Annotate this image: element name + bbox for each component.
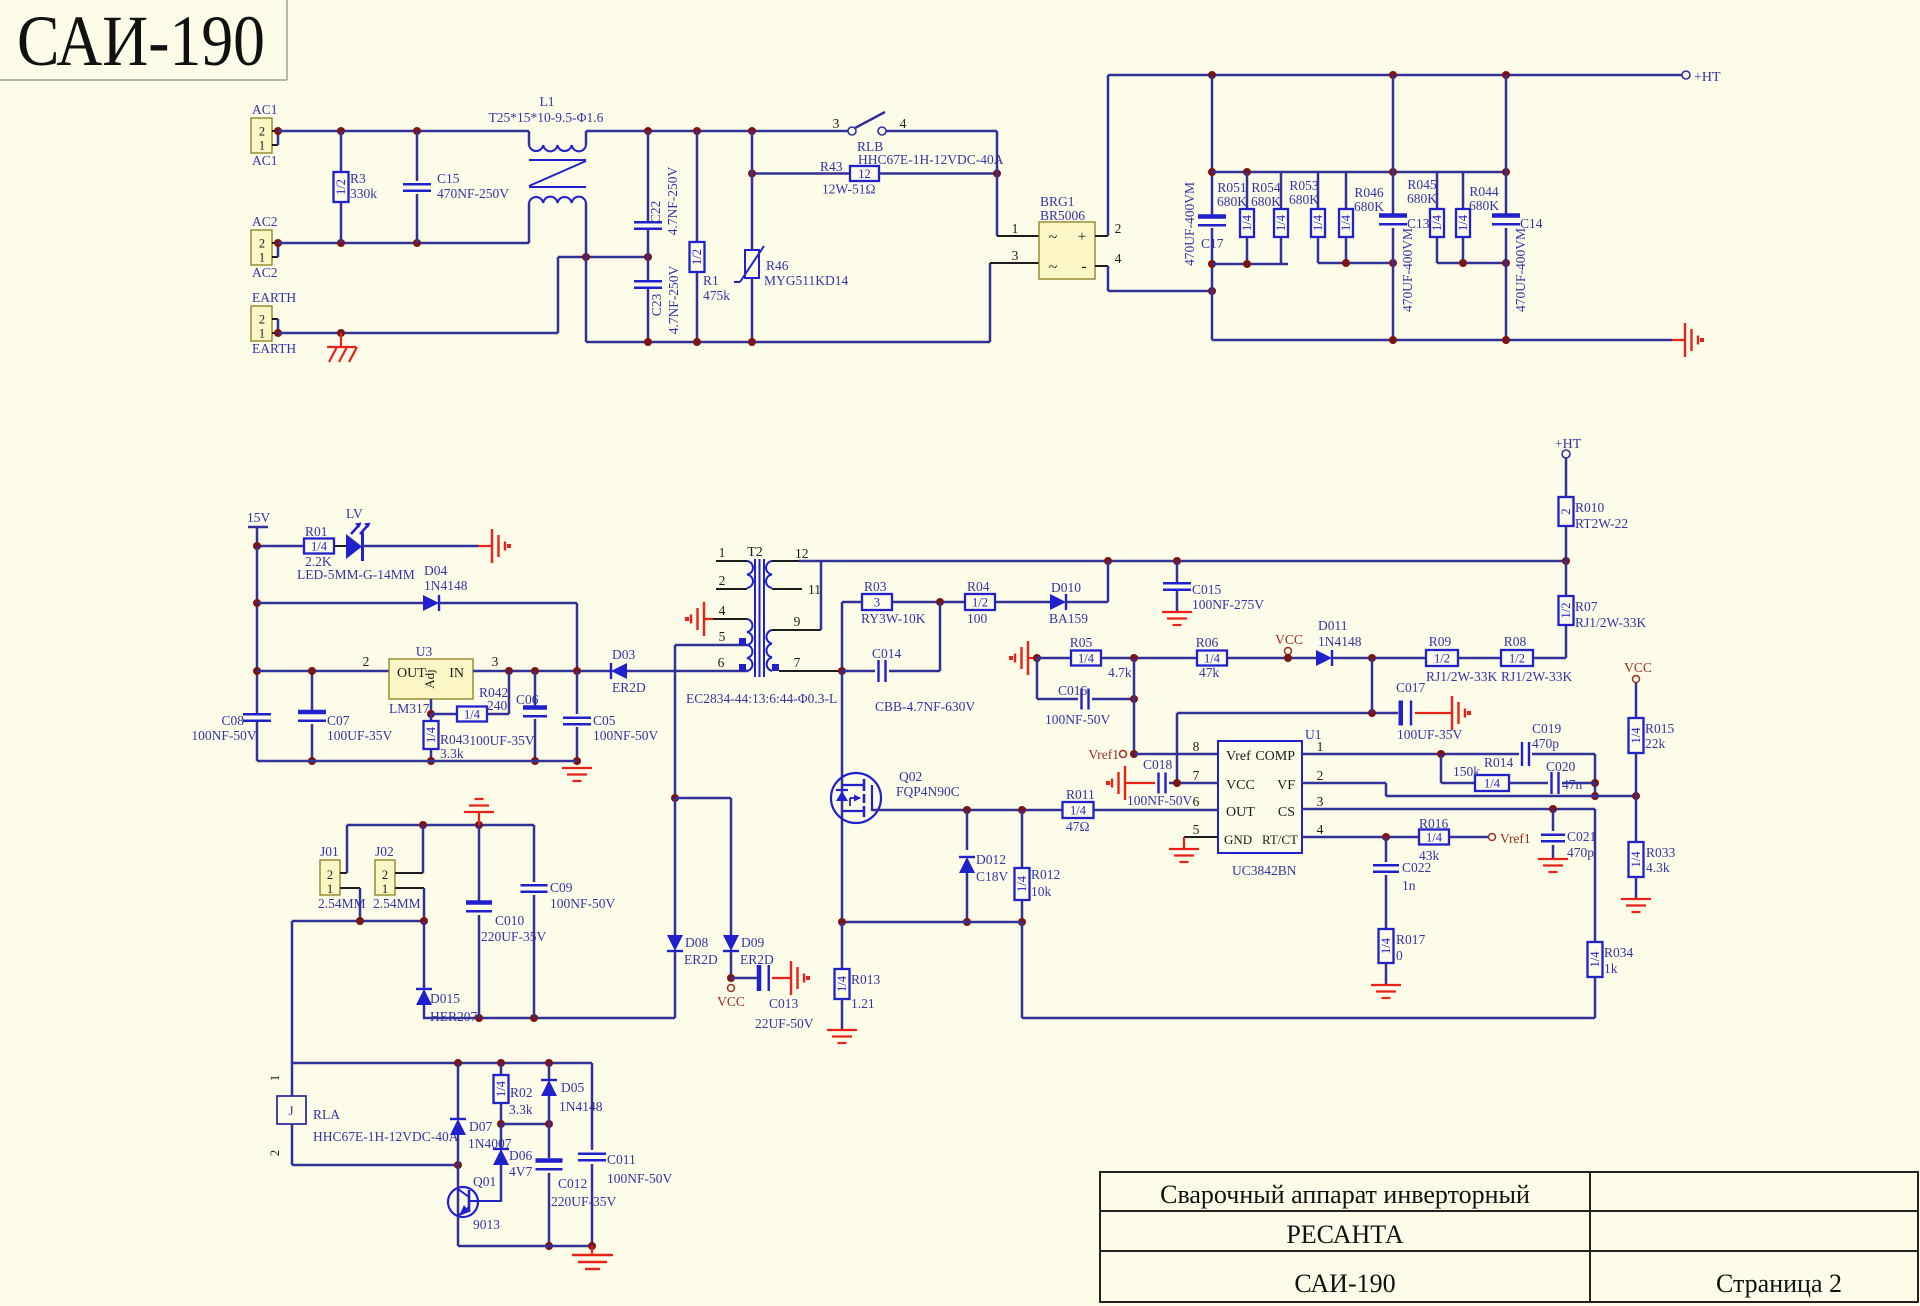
svg-text:D03: D03 bbox=[612, 647, 635, 662]
svg-text:R010: R010 bbox=[1575, 500, 1605, 515]
svg-text:ER2D: ER2D bbox=[740, 952, 774, 967]
svg-text:3: 3 bbox=[833, 116, 840, 131]
svg-text:R013: R013 bbox=[851, 972, 881, 987]
svg-text:1n: 1n bbox=[1402, 878, 1416, 893]
svg-text:D06: D06 bbox=[509, 1148, 532, 1163]
svg-text:1: 1 bbox=[259, 139, 265, 153]
svg-text:680K: 680K bbox=[1217, 194, 1247, 209]
svg-text:C019: C019 bbox=[1532, 721, 1562, 736]
svg-text:+: + bbox=[1078, 229, 1086, 245]
svg-text:12: 12 bbox=[858, 167, 871, 181]
svg-text:GND: GND bbox=[1224, 832, 1252, 847]
svg-text:1/2: 1/2 bbox=[690, 249, 704, 265]
svg-text:RT/CT: RT/CT bbox=[1262, 832, 1298, 847]
svg-text:2: 2 bbox=[259, 313, 265, 327]
svg-text:HHC67E-1H-12VDC-40A: HHC67E-1H-12VDC-40A bbox=[313, 1129, 459, 1144]
svg-text:Adj: Adj bbox=[422, 669, 437, 689]
svg-text:1/4: 1/4 bbox=[1204, 652, 1221, 666]
svg-text:1N4148: 1N4148 bbox=[424, 578, 468, 593]
svg-text:100NF-50V: 100NF-50V bbox=[607, 1171, 673, 1186]
svg-text:EARTH: EARTH bbox=[252, 290, 296, 305]
svg-text:Vref: Vref bbox=[1226, 749, 1251, 764]
svg-text:R053: R053 bbox=[1289, 178, 1319, 193]
svg-text:2: 2 bbox=[259, 125, 265, 139]
svg-text:RJ1/2W-33K: RJ1/2W-33K bbox=[1575, 615, 1647, 630]
svg-text:R08: R08 bbox=[1504, 634, 1527, 649]
svg-text:VCC: VCC bbox=[717, 994, 745, 1009]
svg-text:R044: R044 bbox=[1469, 184, 1499, 199]
svg-text:R043: R043 bbox=[440, 732, 470, 747]
svg-text:4.7NF-250V: 4.7NF-250V bbox=[666, 265, 681, 334]
svg-text:C015: C015 bbox=[1192, 582, 1222, 597]
svg-text:47Ω: 47Ω bbox=[1066, 819, 1090, 834]
svg-text:4: 4 bbox=[1115, 251, 1122, 266]
svg-text:CS: CS bbox=[1278, 805, 1295, 820]
svg-text:470UF-400VM: 470UF-400VM bbox=[1513, 228, 1528, 312]
svg-text:4V7: 4V7 bbox=[509, 1164, 532, 1179]
svg-text:RLA: RLA bbox=[313, 1107, 340, 1122]
svg-text:R06: R06 bbox=[1196, 635, 1219, 650]
svg-text:VCC: VCC bbox=[1275, 632, 1303, 647]
svg-text:COMP: COMP bbox=[1255, 749, 1295, 764]
svg-text:D010: D010 bbox=[1051, 580, 1081, 595]
svg-text:EARTH: EARTH bbox=[252, 341, 296, 356]
svg-text:R045: R045 bbox=[1407, 177, 1437, 192]
svg-text:100NF-50V: 100NF-50V bbox=[550, 896, 616, 911]
svg-text:R011: R011 bbox=[1066, 787, 1095, 802]
svg-text:C013: C013 bbox=[769, 996, 799, 1011]
svg-text:UC3842BN: UC3842BN bbox=[1232, 863, 1297, 878]
svg-text:330k: 330k bbox=[350, 186, 377, 201]
svg-text:J01: J01 bbox=[320, 844, 339, 859]
svg-text:1/4: 1/4 bbox=[1240, 214, 1254, 231]
svg-text:R03: R03 bbox=[864, 579, 887, 594]
svg-text:8: 8 bbox=[1193, 739, 1200, 754]
svg-text:100UF-35V: 100UF-35V bbox=[1397, 727, 1463, 742]
svg-text:2.54MM: 2.54MM bbox=[318, 896, 366, 911]
svg-text:R016: R016 bbox=[1419, 816, 1449, 831]
svg-text:MYG511KD14: MYG511KD14 bbox=[764, 273, 848, 288]
svg-text:R012: R012 bbox=[1031, 867, 1060, 882]
svg-text:AC2: AC2 bbox=[252, 214, 278, 229]
svg-text:R43: R43 bbox=[820, 159, 843, 174]
svg-text:5: 5 bbox=[719, 629, 726, 644]
svg-text:R051: R051 bbox=[1217, 180, 1246, 195]
svg-text:AC2: AC2 bbox=[252, 265, 278, 280]
svg-text:1/4: 1/4 bbox=[1078, 652, 1095, 666]
svg-text:1/4: 1/4 bbox=[1629, 851, 1643, 868]
svg-text:C06: C06 bbox=[516, 692, 539, 707]
svg-text:220UF-35V: 220UF-35V bbox=[481, 929, 547, 944]
svg-text:1/4: 1/4 bbox=[1015, 875, 1029, 892]
svg-text:1/4: 1/4 bbox=[1070, 804, 1087, 818]
svg-text:100NF-50V: 100NF-50V bbox=[191, 728, 257, 743]
svg-text:+HT: +HT bbox=[1694, 70, 1721, 85]
svg-text:C23: C23 bbox=[649, 294, 664, 317]
svg-text:C07: C07 bbox=[327, 713, 350, 728]
svg-text:1/4: 1/4 bbox=[1274, 214, 1288, 231]
svg-text:100NF-50V: 100NF-50V bbox=[1045, 712, 1111, 727]
svg-text:2: 2 bbox=[1317, 768, 1324, 783]
svg-text:~: ~ bbox=[1049, 229, 1058, 246]
svg-text:C010: C010 bbox=[495, 913, 525, 928]
svg-text:R017: R017 bbox=[1396, 932, 1426, 947]
svg-text:11: 11 bbox=[808, 582, 821, 597]
svg-text:ER2D: ER2D bbox=[612, 680, 646, 695]
svg-text:AC1: AC1 bbox=[252, 102, 278, 117]
svg-text:2: 2 bbox=[1559, 508, 1573, 514]
svg-text:1k: 1k bbox=[1604, 961, 1618, 976]
svg-text:1: 1 bbox=[382, 882, 388, 896]
svg-text:VF: VF bbox=[1277, 778, 1295, 793]
svg-text:D09: D09 bbox=[741, 935, 764, 950]
svg-text:C016: C016 bbox=[1058, 683, 1088, 698]
svg-text:EC2834-44:13:6:44-Φ0.3-L: EC2834-44:13:6:44-Φ0.3-L bbox=[686, 691, 837, 706]
svg-text:D07: D07 bbox=[469, 1119, 492, 1134]
svg-text:4: 4 bbox=[1317, 822, 1324, 837]
svg-text:100NF-50V: 100NF-50V bbox=[593, 728, 659, 743]
svg-text:3: 3 bbox=[492, 654, 499, 669]
svg-text:1/4: 1/4 bbox=[1426, 831, 1443, 845]
svg-text:C021: C021 bbox=[1567, 829, 1596, 844]
svg-text:1/2: 1/2 bbox=[1509, 652, 1525, 666]
svg-text:100: 100 bbox=[967, 611, 988, 626]
svg-text:RT2W-22: RT2W-22 bbox=[1575, 516, 1628, 531]
svg-text:BR5006: BR5006 bbox=[1040, 208, 1085, 223]
svg-text:680K: 680K bbox=[1251, 194, 1281, 209]
svg-text:Q02: Q02 bbox=[899, 769, 922, 784]
svg-text:HER207: HER207 bbox=[430, 1009, 478, 1024]
svg-text:R1: R1 bbox=[703, 273, 719, 288]
svg-text:R46: R46 bbox=[766, 258, 789, 273]
svg-text:680K: 680K bbox=[1289, 192, 1319, 207]
svg-text:LV: LV bbox=[346, 506, 363, 521]
svg-text:L1: L1 bbox=[540, 94, 555, 109]
svg-text:2: 2 bbox=[719, 573, 726, 588]
svg-text:100NF-50V: 100NF-50V bbox=[1127, 793, 1193, 808]
svg-text:R046: R046 bbox=[1354, 185, 1384, 200]
svg-text:CBB-4.7NF-630V: CBB-4.7NF-630V bbox=[875, 699, 975, 714]
svg-text:САИ-190: САИ-190 bbox=[1294, 1269, 1395, 1298]
svg-text:1/4: 1/4 bbox=[1339, 214, 1353, 231]
svg-text:1/4: 1/4 bbox=[1484, 777, 1501, 791]
svg-text:5: 5 bbox=[1193, 822, 1200, 837]
svg-text:680K: 680K bbox=[1354, 199, 1384, 214]
svg-text:1/4: 1/4 bbox=[311, 540, 328, 554]
svg-text:Сварочный аппарат инверторный: Сварочный аппарат инверторный bbox=[1160, 1180, 1530, 1209]
svg-text:C020: C020 bbox=[1546, 759, 1576, 774]
svg-text:12: 12 bbox=[795, 546, 809, 561]
svg-text:150k: 150k bbox=[1453, 764, 1480, 779]
svg-text:240: 240 bbox=[487, 698, 508, 713]
svg-text:R3: R3 bbox=[350, 171, 366, 186]
svg-text:15V: 15V bbox=[247, 510, 271, 525]
svg-text:470UF-400VM: 470UF-400VM bbox=[1400, 228, 1415, 312]
svg-text:VCC: VCC bbox=[1226, 778, 1255, 793]
svg-text:D012: D012 bbox=[976, 852, 1006, 867]
svg-text:-: - bbox=[1081, 258, 1086, 275]
svg-text:1: 1 bbox=[259, 327, 265, 341]
svg-text:Vref1: Vref1 bbox=[1500, 831, 1531, 846]
svg-text:R04: R04 bbox=[967, 579, 990, 594]
svg-text:D011: D011 bbox=[1318, 618, 1348, 633]
svg-text:R09: R09 bbox=[1429, 634, 1452, 649]
svg-text:C18V: C18V bbox=[976, 869, 1009, 884]
svg-text:100UF-35V: 100UF-35V bbox=[469, 733, 535, 748]
svg-text:1: 1 bbox=[268, 1075, 282, 1081]
svg-text:470p: 470p bbox=[1567, 845, 1594, 860]
svg-text:РЕСАНТА: РЕСАНТА bbox=[1286, 1220, 1404, 1249]
svg-text:2: 2 bbox=[363, 654, 370, 669]
svg-text:1/2: 1/2 bbox=[334, 179, 348, 195]
svg-text:220UF-35V: 220UF-35V bbox=[551, 1194, 617, 1209]
svg-text:470p: 470p bbox=[1532, 736, 1559, 751]
svg-text:2: 2 bbox=[327, 868, 333, 882]
svg-text:Q01: Q01 bbox=[473, 1174, 496, 1189]
svg-text:1/4: 1/4 bbox=[1430, 214, 1444, 231]
svg-text:100NF-275V: 100NF-275V bbox=[1192, 597, 1264, 612]
svg-text:C014: C014 bbox=[872, 646, 902, 661]
svg-text:3: 3 bbox=[1012, 248, 1019, 263]
svg-text:1/4: 1/4 bbox=[1588, 951, 1602, 968]
svg-text:1/4: 1/4 bbox=[464, 708, 481, 722]
svg-text:9: 9 bbox=[794, 614, 801, 629]
svg-text:47k: 47k bbox=[1199, 665, 1220, 680]
svg-text:100UF-35V: 100UF-35V bbox=[327, 728, 393, 743]
svg-text:2: 2 bbox=[259, 237, 265, 251]
svg-text:OUT: OUT bbox=[1226, 805, 1255, 820]
svg-text:C05: C05 bbox=[593, 713, 616, 728]
svg-text:C011: C011 bbox=[607, 1152, 636, 1167]
svg-text:7: 7 bbox=[794, 655, 801, 670]
svg-text:D04: D04 bbox=[424, 563, 447, 578]
svg-text:ER2D: ER2D bbox=[684, 952, 718, 967]
svg-text:LED-5MM-G-14MM: LED-5MM-G-14MM bbox=[297, 567, 415, 582]
svg-text:D08: D08 bbox=[685, 935, 708, 950]
svg-text:C09: C09 bbox=[550, 880, 573, 895]
svg-text:САИ-190: САИ-190 bbox=[17, 1, 265, 81]
svg-text:1/4: 1/4 bbox=[424, 726, 438, 743]
svg-text:Vref1: Vref1 bbox=[1088, 747, 1119, 762]
svg-text:1.21: 1.21 bbox=[851, 996, 875, 1011]
svg-text:2: 2 bbox=[382, 868, 388, 882]
svg-text:C018: C018 bbox=[1143, 757, 1173, 772]
svg-text:Страница 2: Страница 2 bbox=[1716, 1269, 1842, 1298]
svg-text:C017: C017 bbox=[1396, 680, 1426, 695]
svg-text:R033: R033 bbox=[1646, 845, 1676, 860]
svg-text:47n: 47n bbox=[1562, 777, 1583, 792]
svg-text:1: 1 bbox=[719, 545, 726, 560]
svg-text:T2: T2 bbox=[747, 545, 763, 560]
svg-text:1: 1 bbox=[1012, 221, 1019, 236]
svg-text:4: 4 bbox=[719, 603, 726, 618]
svg-text:FQP4N90C: FQP4N90C bbox=[896, 784, 960, 799]
svg-text:1: 1 bbox=[1317, 739, 1324, 754]
svg-text:1/4: 1/4 bbox=[494, 1080, 508, 1097]
svg-text:D015: D015 bbox=[430, 991, 460, 1006]
svg-text:1/4: 1/4 bbox=[1456, 214, 1470, 231]
svg-text:C15: C15 bbox=[437, 171, 460, 186]
svg-text:9013: 9013 bbox=[473, 1217, 500, 1232]
svg-text:1/2: 1/2 bbox=[1559, 603, 1573, 619]
svg-text:22UF-50V: 22UF-50V bbox=[755, 1016, 814, 1031]
svg-text:470NF-250V: 470NF-250V bbox=[437, 186, 509, 201]
svg-text:1N4148: 1N4148 bbox=[1318, 634, 1362, 649]
svg-text:1/4: 1/4 bbox=[1379, 937, 1393, 954]
svg-text:C17: C17 bbox=[1201, 236, 1224, 251]
svg-text:HHC67E-1H-12VDC-40A: HHC67E-1H-12VDC-40A bbox=[858, 152, 1004, 167]
svg-text:680K: 680K bbox=[1407, 191, 1437, 206]
svg-text:IN: IN bbox=[449, 666, 464, 681]
svg-text:R05: R05 bbox=[1070, 635, 1093, 650]
svg-text:R034: R034 bbox=[1604, 945, 1634, 960]
svg-text:C022: C022 bbox=[1402, 860, 1431, 875]
svg-text:J: J bbox=[288, 1103, 293, 1118]
svg-text:RY3W-10K: RY3W-10K bbox=[861, 611, 926, 626]
svg-text:22k: 22k bbox=[1645, 736, 1666, 751]
svg-text:1/4: 1/4 bbox=[1629, 727, 1643, 744]
svg-text:3: 3 bbox=[1317, 794, 1324, 809]
svg-text:1/4: 1/4 bbox=[1311, 214, 1325, 231]
svg-text:3.3k: 3.3k bbox=[440, 746, 464, 761]
svg-text:1/2: 1/2 bbox=[972, 596, 988, 610]
svg-text:R054: R054 bbox=[1251, 180, 1281, 195]
svg-text:LM317: LM317 bbox=[389, 701, 430, 716]
svg-text:4: 4 bbox=[900, 116, 907, 131]
svg-text:12W-51Ω: 12W-51Ω bbox=[822, 182, 876, 197]
svg-text:1N4148: 1N4148 bbox=[559, 1099, 603, 1114]
svg-text:RJ1/2W-33K: RJ1/2W-33K bbox=[1501, 669, 1573, 684]
svg-text:10k: 10k bbox=[1031, 884, 1052, 899]
svg-text:RJ1/2W-33K: RJ1/2W-33K bbox=[1426, 669, 1498, 684]
svg-text:R015: R015 bbox=[1645, 721, 1675, 736]
svg-text:C08: C08 bbox=[221, 713, 244, 728]
svg-text:C22: C22 bbox=[648, 201, 663, 224]
svg-text:1: 1 bbox=[259, 251, 265, 265]
svg-text:AC1: AC1 bbox=[252, 153, 278, 168]
svg-text:R014: R014 bbox=[1484, 755, 1514, 770]
svg-text:0: 0 bbox=[1396, 948, 1403, 963]
svg-text:4.7NF-250V: 4.7NF-250V bbox=[665, 166, 680, 235]
svg-text:+HT: +HT bbox=[1555, 437, 1582, 452]
svg-text:470UF-400VM: 470UF-400VM bbox=[1182, 182, 1197, 266]
svg-text:J02: J02 bbox=[375, 844, 394, 859]
svg-text:D05: D05 bbox=[561, 1080, 584, 1095]
svg-text:2: 2 bbox=[1115, 221, 1122, 236]
svg-text:1: 1 bbox=[327, 882, 333, 896]
svg-text:C012: C012 bbox=[558, 1176, 587, 1191]
svg-text:U3: U3 bbox=[416, 644, 433, 659]
svg-text:3.3k: 3.3k bbox=[509, 1102, 533, 1117]
svg-text:R07: R07 bbox=[1575, 599, 1598, 614]
svg-text:6: 6 bbox=[718, 655, 725, 670]
svg-text:BA159: BA159 bbox=[1049, 611, 1088, 626]
svg-text:R02: R02 bbox=[510, 1085, 533, 1100]
svg-text:680K: 680K bbox=[1469, 198, 1499, 213]
svg-text:T25*15*10-9.5-Φ1.6: T25*15*10-9.5-Φ1.6 bbox=[489, 110, 604, 125]
svg-text:BRG1: BRG1 bbox=[1040, 194, 1075, 209]
svg-text:2.54MM: 2.54MM bbox=[373, 896, 421, 911]
svg-text:2: 2 bbox=[268, 1150, 282, 1156]
svg-text:6: 6 bbox=[1193, 794, 1200, 809]
svg-text:VCC: VCC bbox=[1624, 660, 1652, 675]
svg-text:7: 7 bbox=[1193, 768, 1200, 783]
svg-text:R01: R01 bbox=[305, 524, 328, 539]
svg-text:1/4: 1/4 bbox=[835, 975, 849, 992]
svg-text:1/2: 1/2 bbox=[1434, 652, 1450, 666]
svg-text:~: ~ bbox=[1049, 259, 1058, 276]
svg-text:3: 3 bbox=[874, 596, 880, 610]
svg-text:475k: 475k bbox=[703, 288, 730, 303]
svg-text:4.7k: 4.7k bbox=[1108, 665, 1132, 680]
svg-text:4.3k: 4.3k bbox=[1646, 860, 1670, 875]
